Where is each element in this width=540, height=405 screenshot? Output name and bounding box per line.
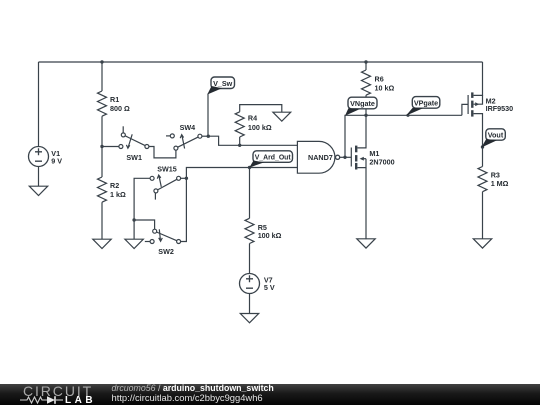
- svg-text:SW4: SW4: [180, 123, 196, 132]
- svg-text:1 kΩ: 1 kΩ: [110, 190, 126, 199]
- svg-text:Vout: Vout: [488, 131, 504, 140]
- svg-text:VNgate: VNgate: [350, 99, 375, 108]
- svg-text:NAND7: NAND7: [308, 153, 333, 162]
- svg-text:10 kΩ: 10 kΩ: [375, 83, 395, 92]
- svg-text:R4: R4: [248, 114, 257, 123]
- svg-text:IRF9530: IRF9530: [486, 104, 514, 113]
- svg-text:R2: R2: [110, 181, 119, 190]
- svg-text:100 kΩ: 100 kΩ: [258, 231, 282, 240]
- svg-text:SW15: SW15: [157, 164, 177, 173]
- svg-text:R1: R1: [110, 95, 119, 104]
- svg-text:5 V: 5 V: [264, 283, 275, 292]
- svg-text:100 kΩ: 100 kΩ: [248, 123, 272, 132]
- svg-text:SW2: SW2: [158, 247, 174, 256]
- svg-text:SW1: SW1: [126, 153, 142, 162]
- svg-text:R6: R6: [375, 75, 384, 84]
- svg-text:9 V: 9 V: [51, 157, 62, 166]
- svg-text:2N7000: 2N7000: [369, 157, 394, 166]
- svg-text:R3: R3: [491, 170, 500, 179]
- svg-text:VPgate: VPgate: [414, 98, 438, 107]
- svg-text:V_Sw: V_Sw: [213, 79, 233, 88]
- svg-text:1 MΩ: 1 MΩ: [491, 179, 509, 188]
- svg-text:800 Ω: 800 Ω: [110, 104, 130, 113]
- svg-text:V_Ard_Out: V_Ard_Out: [255, 155, 292, 162]
